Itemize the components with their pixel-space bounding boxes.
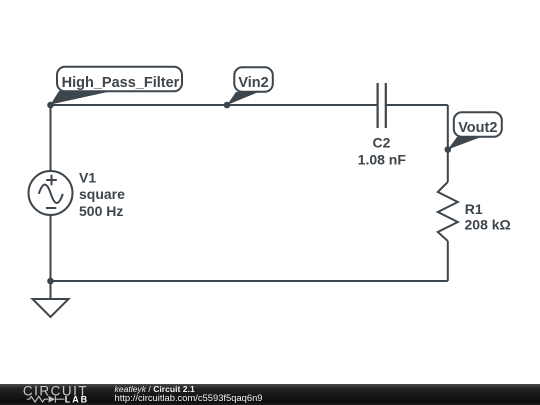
junction dot High_Pass_Filter node [47, 102, 54, 109]
wire left vertical lower [50, 215, 52, 281]
wire right vertical upper [447, 105, 449, 182]
node Vout2 flag [448, 112, 502, 149]
footer url text [115, 393, 263, 402]
wire left vertical upper [50, 105, 52, 171]
footer title text [115, 385, 195, 394]
svg-text:Vin2: Vin2 [238, 75, 268, 91]
svg-text:High_Pass_Filter: High_Pass_Filter [62, 75, 180, 91]
resistor R1 [438, 182, 458, 241]
svg-text:208 kΩ: 208 kΩ [465, 217, 511, 233]
junction dot Vout2 node [445, 146, 452, 153]
svg-text:1.08 nF: 1.08 nF [358, 152, 407, 168]
capacitor C2 [378, 83, 386, 128]
node Vin2 flag [227, 67, 273, 105]
svg-text:square: square [79, 186, 125, 202]
svg-text:500 Hz: 500 Hz [79, 203, 123, 219]
svg-text:C2: C2 [373, 135, 391, 151]
svg-text:Vout2: Vout2 [458, 120, 497, 136]
svg-text:R1: R1 [465, 201, 483, 217]
wire top rail right segment [387, 104, 448, 106]
wire right vertical lower [447, 241, 449, 281]
footer bar [0, 384, 540, 405]
node High_Pass_Filter flag [51, 67, 183, 105]
wire bottom rail [51, 280, 448, 282]
junction dot Vin2 node [224, 102, 231, 109]
ground [33, 281, 69, 317]
svg-text:V1: V1 [79, 170, 96, 186]
wire top rail left segment [51, 104, 378, 106]
voltage source V1 [29, 171, 73, 215]
junction dot ground node [47, 278, 54, 285]
